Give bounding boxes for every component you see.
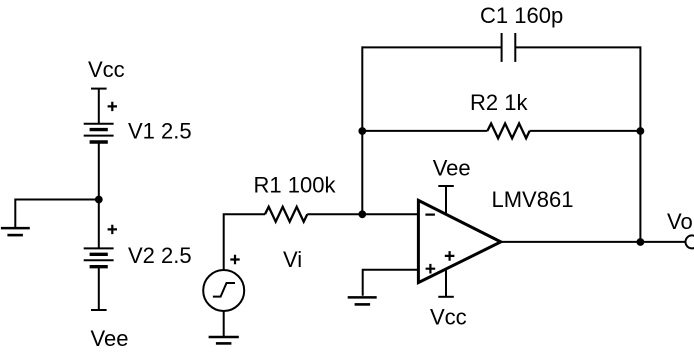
ground (op-amp non-inverting input) [348, 297, 377, 304]
node E (output junction) [637, 238, 645, 246]
wire left junction to R2 [362, 130, 487, 132]
resistor R2 1k [470, 90, 530, 138]
wire top to C1 left plate [362, 46, 501, 48]
resistor R1 100k [254, 173, 337, 222]
node Vcc (top-left supply terminal label) [88, 57, 125, 89]
wire Vee pin to op-amp [445, 186, 447, 213]
wire from V1 to mid node [98, 142, 100, 200]
wire from Vcc terminal to V1 [98, 89, 100, 124]
svg-text:Vi: Vi [283, 247, 302, 272]
wire right feedback riser [639, 46, 641, 242]
ground (below source) [209, 337, 239, 343]
battery V2 2.5 [84, 225, 192, 268]
svg-text:Vee: Vee [91, 326, 129, 351]
node Vee (bottom-left supply terminal label) [91, 310, 129, 351]
node Vo (output terminal) [667, 209, 694, 248]
svg-text:Vcc: Vcc [430, 304, 467, 329]
svg-text:V2 2.5: V2 2.5 [128, 243, 192, 268]
svg-text:Vcc: Vcc [88, 57, 125, 82]
battery V1 2.5 [84, 102, 192, 144]
source V3 (ramp/pulse source, input) [203, 255, 244, 311]
wire from R1 to inverting input node [307, 213, 418, 215]
ground (left, at V1/V2 midpoint) [1, 228, 30, 235]
svg-text:Vo: Vo [667, 209, 693, 234]
wire from mid node to left ground [15, 200, 99, 228]
node D (right feedback junction at R2) [637, 127, 645, 135]
svg-text:C1 160p: C1 160p [480, 3, 563, 28]
node B (inverting input junction) [358, 210, 366, 218]
wire from mid node to V2 and V2 to Vee terminal [98, 200, 100, 249]
svg-text:V1 2.5: V1 2.5 [128, 119, 192, 144]
wire from source to ground [223, 311, 225, 336]
svg-text:R1 100k: R1 100k [254, 173, 337, 198]
wire non-inverting input to ground [363, 270, 419, 296]
wire R2 to right riser [530, 130, 641, 132]
wire op-amp Vcc pin [445, 269, 447, 297]
node Vcc (op-amp bottom supply pin) [430, 297, 467, 330]
wire C1 right plate to right riser [515, 46, 640, 48]
wire left feedback riser [361, 46, 363, 214]
svg-text:Vee: Vee [433, 156, 471, 181]
node C (left feedback junction at R2) [358, 127, 366, 135]
svg-text:R2 1k: R2 1k [470, 90, 528, 115]
svg-text:LMV861: LMV861 [492, 187, 574, 212]
node Vee (op-amp top supply pin) [433, 156, 471, 187]
op-amp U1 LMV861 [418, 187, 573, 282]
capacitor C1 160p [480, 3, 563, 62]
wire op-amp output [501, 241, 685, 243]
wire from source up and right to R1 [224, 214, 265, 270]
node A (junction between V1 and V2) [95, 196, 103, 204]
